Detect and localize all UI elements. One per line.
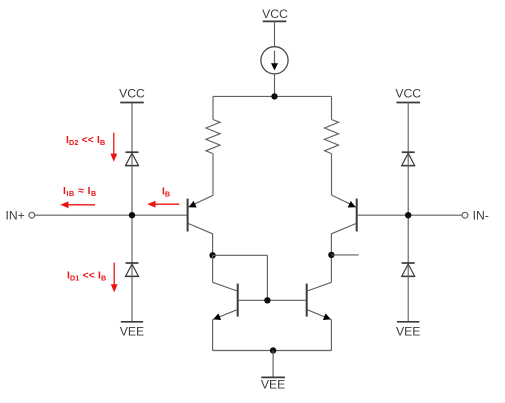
wire D2 to IN+ node [131, 154, 133, 215]
wire node A down to Q3 collector [212, 255, 214, 282]
power symbol VCC (tail supply) [262, 7, 288, 21]
junction: node B (Q2 collector / mirror output) [328, 252, 334, 258]
wire left VCC to D2 [131, 103, 133, 154]
transistor Q1 (PNP, inverting-side input device) [188, 195, 213, 234]
current flow arrow for I_B (left, base current) [147, 201, 179, 208]
wire mirror bases (Q3 base to Q4 base) [239, 299, 306, 301]
wire D4 to right VEE [407, 265, 409, 322]
svg-text:ID1 << IB: ID1 << IB [67, 270, 106, 282]
wire Q4 collector up to node B [330, 255, 332, 282]
wire D3 to IN- node [407, 154, 409, 215]
terminal IN+ pin circle [29, 212, 35, 218]
current flow arrow for I_D2 (down) [110, 133, 117, 162]
diode D2 (IN+ to VCC clamp) [126, 152, 139, 165]
svg-text:VCC: VCC [119, 86, 145, 100]
wire right VCC to D3 [407, 103, 409, 154]
wire VCC bar to current source [274, 21, 276, 46]
wire Q1 collector down to node A [212, 234, 214, 256]
wire top rail to R2 [331, 96, 333, 119]
power symbol VEE (tail return) [261, 377, 285, 391]
power symbol VEE (right clamp) [396, 322, 420, 339]
wire node B output stub [331, 254, 358, 256]
current flow arrow for I_IB (left, out of IN+) [60, 201, 95, 208]
wire Q2 base to IN- terminal (through IN- node) [358, 214, 462, 216]
transistor Q2 (PNP, non-inverting-side input device) [331, 195, 356, 234]
wire Q3 emitter to bottom rail [212, 320, 214, 351]
junction: IN- node (clamp tap) [405, 212, 411, 218]
current source I1 (tail current) [261, 47, 288, 74]
svg-text:VCC: VCC [262, 7, 288, 21]
junction: top rail / current source node [271, 93, 277, 99]
svg-text:ID2 << IB: ID2 << IB [66, 135, 105, 147]
wire current source to top rail [274, 74, 276, 97]
svg-text:IB: IB [162, 186, 170, 198]
wire bottom rail [213, 350, 332, 352]
resistor R2 [325, 120, 339, 154]
junction: IN+ node (clamp tap) [129, 212, 135, 218]
svg-text:VEE: VEE [396, 325, 420, 339]
svg-text:IN-: IN- [473, 209, 489, 223]
power symbol VCC (right clamp) [395, 86, 421, 102]
wire IN- node to D4 [407, 215, 409, 264]
svg-text:IIB ≈ IB: IIB ≈ IB [63, 186, 97, 198]
wire R1 to Q1 emitter [212, 154, 214, 196]
diode D3 (IN- to VCC clamp) [402, 152, 415, 165]
power symbol VCC (left clamp) [119, 86, 145, 102]
wire top rail to R1 [212, 96, 214, 119]
svg-text:VEE: VEE [261, 378, 285, 392]
wire bottom rail to VEE [272, 351, 274, 378]
junction: node A (Q1 collector / mirror input) [209, 252, 215, 258]
transistor Q3 (NPN, diode-connected mirror master) [213, 282, 238, 320]
diode D1 (VEE to IN+ clamp) [126, 263, 139, 276]
wire mirror base tie (vertical) [266, 255, 268, 300]
wire top rail [213, 95, 332, 97]
wire Q4 emitter to bottom rail [330, 320, 332, 351]
svg-text:VCC: VCC [395, 86, 421, 100]
wire node A to mirror base tie (horizontal) [213, 254, 268, 256]
current flow arrow for I_D1 (down) [111, 263, 118, 293]
terminal IN- pin circle [462, 212, 468, 218]
junction: mirror base node [264, 297, 270, 303]
power symbol VEE (left clamp) [120, 322, 144, 339]
transistor Q4 (NPN, mirror output) [307, 282, 332, 320]
junction: bottom rail / VEE tap [270, 347, 276, 353]
svg-text:VEE: VEE [120, 325, 144, 339]
wire Q2 collector down to node B [330, 234, 332, 256]
wire D1 to left VEE [131, 265, 133, 322]
resistor R1 [206, 120, 220, 154]
svg-text:IN+: IN+ [5, 209, 24, 223]
wire IN+ terminal to Q1 base (through IN+ node) [35, 214, 187, 216]
diode D4 (VEE to IN- clamp) [402, 263, 415, 276]
wire IN+ node to D1 [131, 215, 133, 264]
wire R2 to Q2 emitter [331, 154, 333, 196]
